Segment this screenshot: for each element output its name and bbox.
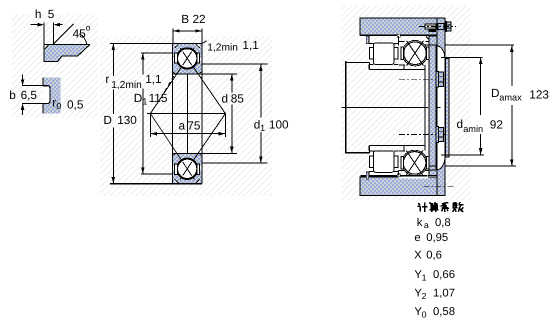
cover inner wall bbox=[429, 45, 436, 170]
D1 extension bottom bbox=[141, 173, 172, 175]
groove outline bbox=[43, 86, 50, 104]
svg-text:b: b bbox=[9, 88, 16, 102]
bearing joint face bottom bbox=[397, 171, 399, 176]
groove slot (white, rounded right side) bbox=[43, 86, 50, 104]
svg-text:1,1: 1,1 bbox=[145, 72, 161, 86]
angle arc bbox=[80, 34, 87, 44]
housing bottom block bbox=[360, 177, 444, 196]
svg-text:d: d bbox=[222, 92, 229, 106]
Da extension top bbox=[445, 44, 514, 46]
svg-text:a: a bbox=[179, 118, 186, 132]
QJ cage bars bottom bbox=[401, 157, 404, 170]
outer ring top section (blue) bbox=[173, 44, 201, 53]
QJ inner shoulder line bottom bbox=[399, 150, 405, 152]
B dimension line bbox=[173, 30, 202, 32]
QJ ball top bbox=[404, 42, 427, 65]
char 数 bbox=[453, 202, 464, 212]
cover neck bottom bbox=[437, 155, 445, 196]
b dim arrow top bbox=[22, 74, 24, 79]
cover bore line bottom (Da) bbox=[429, 165, 437, 167]
lower side bolt bbox=[436, 126, 439, 142]
bearing OD bottom line bbox=[361, 175, 428, 177]
inner raceway lines bottom bbox=[369, 150, 374, 152]
upper side bolt centerline bbox=[399, 78, 447, 80]
shaft axis line bbox=[342, 106, 428, 108]
cover pilot bottom bbox=[429, 166, 437, 175]
top bolt head (blue) bbox=[446, 22, 451, 31]
inner ring top section (blue) bbox=[173, 65, 201, 74]
roller cage bars bottom bbox=[370, 156, 374, 167]
QJ outer raceway lines top bbox=[398, 41, 404, 43]
roller bearing outer ring left face bbox=[368, 36, 370, 43]
svg-text:75: 75 bbox=[187, 118, 201, 132]
roller bearing inner ring left face bbox=[368, 64, 370, 69]
svg-text:1,07: 1,07 bbox=[433, 288, 455, 300]
1,1 leader (dashed) bbox=[165, 74, 175, 91]
h dim arrow left bbox=[31, 24, 38, 26]
svg-text:2: 2 bbox=[422, 291, 427, 301]
svg-text:X: X bbox=[414, 249, 422, 261]
svg-text:D: D bbox=[491, 86, 500, 100]
svg-text:130: 130 bbox=[117, 113, 137, 127]
top bolt washer bbox=[445, 21, 446, 31]
svg-text:0,6: 0,6 bbox=[426, 249, 442, 261]
housing top block bbox=[360, 18, 444, 35]
svg-text:h: h bbox=[35, 7, 42, 21]
char 系 bbox=[441, 203, 449, 212]
cover pilot top bbox=[429, 36, 437, 45]
svg-text:1,1: 1,1 bbox=[242, 38, 258, 52]
svg-text:1: 1 bbox=[260, 123, 265, 133]
bore line top + d extension bbox=[172, 73, 237, 75]
extension line h left bbox=[43, 23, 45, 62]
d1 shoulder extension top bbox=[202, 63, 267, 65]
shoulder top surface bbox=[346, 62, 370, 64]
bottom edge + D extension bbox=[110, 183, 202, 185]
corner chamfers top (white cuts) bbox=[174, 45, 178, 49]
roller cage bars top bbox=[370, 48, 374, 59]
char 计 bbox=[418, 203, 428, 212]
inner rings joint top bbox=[403, 64, 405, 69]
inner ring bottom section (blue) bbox=[173, 154, 201, 163]
locating notch top bbox=[397, 34, 400, 37]
ball top bbox=[178, 49, 197, 68]
QJ raceway pocket bottom bbox=[402, 150, 427, 175]
svg-text:0: 0 bbox=[56, 101, 61, 111]
da dimension line bbox=[480, 58, 482, 115]
Da extension bottom bbox=[445, 165, 516, 167]
svg-text:amax: amax bbox=[499, 93, 522, 103]
D1 dimension line x=142.8 bbox=[142, 53, 144, 74]
a dimension line bbox=[150, 133, 225, 135]
svg-text:amin: amin bbox=[463, 124, 483, 134]
extension line h right bbox=[52, 23, 54, 45]
r corner leader top-right bbox=[203, 41, 207, 44]
wedge outline bottom profile bbox=[44, 45, 89, 62]
svg-text:1: 1 bbox=[142, 97, 147, 107]
centerline horizontal bbox=[147, 113, 226, 115]
centerline vertical bbox=[187, 74, 189, 152]
svg-text:0,5: 0,5 bbox=[67, 97, 84, 111]
d1 shoulder extension bottom bbox=[202, 162, 267, 164]
ball bottom bbox=[178, 159, 197, 178]
pilot bottom edge bbox=[428, 174, 436, 176]
da extension bottom bbox=[441, 154, 484, 156]
cover cavity (white with fillets) bbox=[437, 46, 445, 170]
housing bore line top bbox=[360, 34, 429, 36]
svg-text:123: 123 bbox=[529, 87, 549, 101]
raceway halo top bbox=[177, 48, 198, 69]
QJ raceway pocket top bbox=[402, 41, 427, 66]
cover neck top bbox=[437, 18, 445, 61]
cover outer wall bbox=[445, 59, 449, 157]
outer raceway lines bottom bbox=[369, 171, 374, 173]
svg-text:e: e bbox=[414, 232, 420, 244]
svg-text:115: 115 bbox=[149, 91, 168, 105]
char 算 bbox=[429, 202, 438, 212]
svg-text:92: 92 bbox=[490, 117, 503, 131]
shaft step faces bbox=[368, 63, 370, 70]
svg-text:k: k bbox=[417, 217, 423, 229]
top bolt clearance block bbox=[438, 24, 444, 30]
lower side bolt centerline bbox=[399, 133, 447, 135]
d1 dimension line x=260.8 bbox=[260, 64, 262, 117]
svg-text:22: 22 bbox=[193, 12, 206, 26]
svg-text:45: 45 bbox=[73, 27, 87, 41]
bore line bottom + d extension bbox=[172, 152, 237, 154]
cage bars bottom bbox=[175, 164, 178, 174]
svg-text:D: D bbox=[103, 113, 112, 127]
bearing outline bbox=[171, 44, 173, 184]
a dim drops from diamond vertices bbox=[149, 114, 151, 137]
45 deg line bbox=[53, 24, 73, 44]
svg-text:1,2min: 1,2min bbox=[111, 80, 142, 91]
outer ring bottom section (blue) bbox=[173, 174, 201, 183]
svg-text:a: a bbox=[424, 220, 429, 230]
svg-text:1,2min: 1,2min bbox=[207, 42, 238, 53]
QJ outer raceway lines bottom bbox=[398, 170, 404, 172]
shoulder bottom surface bbox=[346, 152, 370, 154]
inner ring bore chamfers bbox=[173, 72, 176, 74]
corner chamfers bottom (white cuts) bbox=[174, 179, 178, 183]
axis line segment in cover bbox=[436, 106, 440, 108]
inner raceway lines top bbox=[369, 63, 374, 65]
bolt notch floor bbox=[429, 30, 437, 32]
svg-text:r: r bbox=[105, 72, 109, 86]
upper side bolt bbox=[436, 71, 439, 87]
roller bottom bbox=[373, 151, 394, 173]
shaft end + QJ inner ring right face bbox=[424, 65, 426, 151]
clearance strip bottom bbox=[398, 177, 427, 179]
CJK title: 计算系数 (drawn strokes) bbox=[418, 202, 464, 212]
top surface line bbox=[44, 43, 90, 45]
locating ring sliver top bbox=[366, 36, 369, 44]
svg-text:85: 85 bbox=[231, 92, 245, 106]
QJ inner shoulder line top bbox=[399, 64, 405, 66]
svg-text:0,8: 0,8 bbox=[435, 217, 451, 229]
b dim arrow bottom bbox=[22, 110, 24, 115]
QJ cage bars top bbox=[401, 47, 404, 60]
B extension lines bbox=[172, 29, 174, 44]
da extension top bbox=[441, 56, 483, 58]
shaft shoulder face bbox=[345, 61, 347, 154]
roller top bbox=[373, 43, 394, 65]
svg-text:0,66: 0,66 bbox=[433, 269, 455, 281]
top edge + D extension bbox=[110, 43, 202, 45]
h dim arrow right bbox=[60, 24, 63, 26]
top bolt centerline bbox=[419, 25, 456, 27]
locating ring sliver bottom bbox=[366, 172, 369, 179]
svg-text:0: 0 bbox=[422, 309, 427, 319]
svg-text:d: d bbox=[457, 117, 464, 131]
svg-text:0,95: 0,95 bbox=[426, 232, 448, 244]
shaft seat / bore lines bbox=[369, 69, 425, 71]
QJ ring chamfer tick bbox=[426, 36, 429, 39]
d dimension line x=231.8 bbox=[231, 74, 233, 92]
bottom bolt centerline bbox=[424, 185, 455, 187]
svg-text:6,5: 6,5 bbox=[21, 88, 38, 102]
bearing joint face top bbox=[397, 36, 399, 45]
outer raceway lines top bbox=[369, 43, 374, 45]
block left edge below groove bbox=[42, 103, 44, 113]
block left edge above groove bbox=[42, 78, 44, 86]
top bolt shank bbox=[425, 24, 436, 29]
svg-text:B: B bbox=[181, 12, 189, 26]
QJ ball bottom bbox=[403, 152, 426, 175]
svg-text:o: o bbox=[86, 23, 91, 33]
Da dimension line bbox=[511, 45, 513, 86]
wedge top-left chamfer line bbox=[44, 44, 49, 49]
inner rings joint bottom bbox=[403, 146, 405, 151]
svg-text:100: 100 bbox=[269, 117, 289, 131]
locating notch bottom bbox=[397, 174, 400, 177]
contact-line diamond legs bbox=[150, 48, 194, 114]
rib cross-section (blue wedge) bbox=[44, 45, 89, 62]
raceway halo bottom bbox=[177, 158, 198, 179]
groove bottom edge extended bbox=[22, 102, 43, 104]
cage bars top bbox=[175, 53, 178, 63]
cover bore line top (Da) bbox=[425, 44, 437, 46]
D1 extension top bbox=[141, 52, 172, 54]
svg-text:D: D bbox=[134, 91, 143, 105]
ring section with groove (blue block) bbox=[43, 78, 60, 114]
svg-text:5: 5 bbox=[48, 7, 55, 21]
svg-text:1: 1 bbox=[422, 273, 427, 283]
svg-text:0,58: 0,58 bbox=[433, 306, 455, 318]
D dimension line x=113.3 bbox=[112, 44, 114, 76]
groove top edge extended bbox=[22, 85, 43, 87]
